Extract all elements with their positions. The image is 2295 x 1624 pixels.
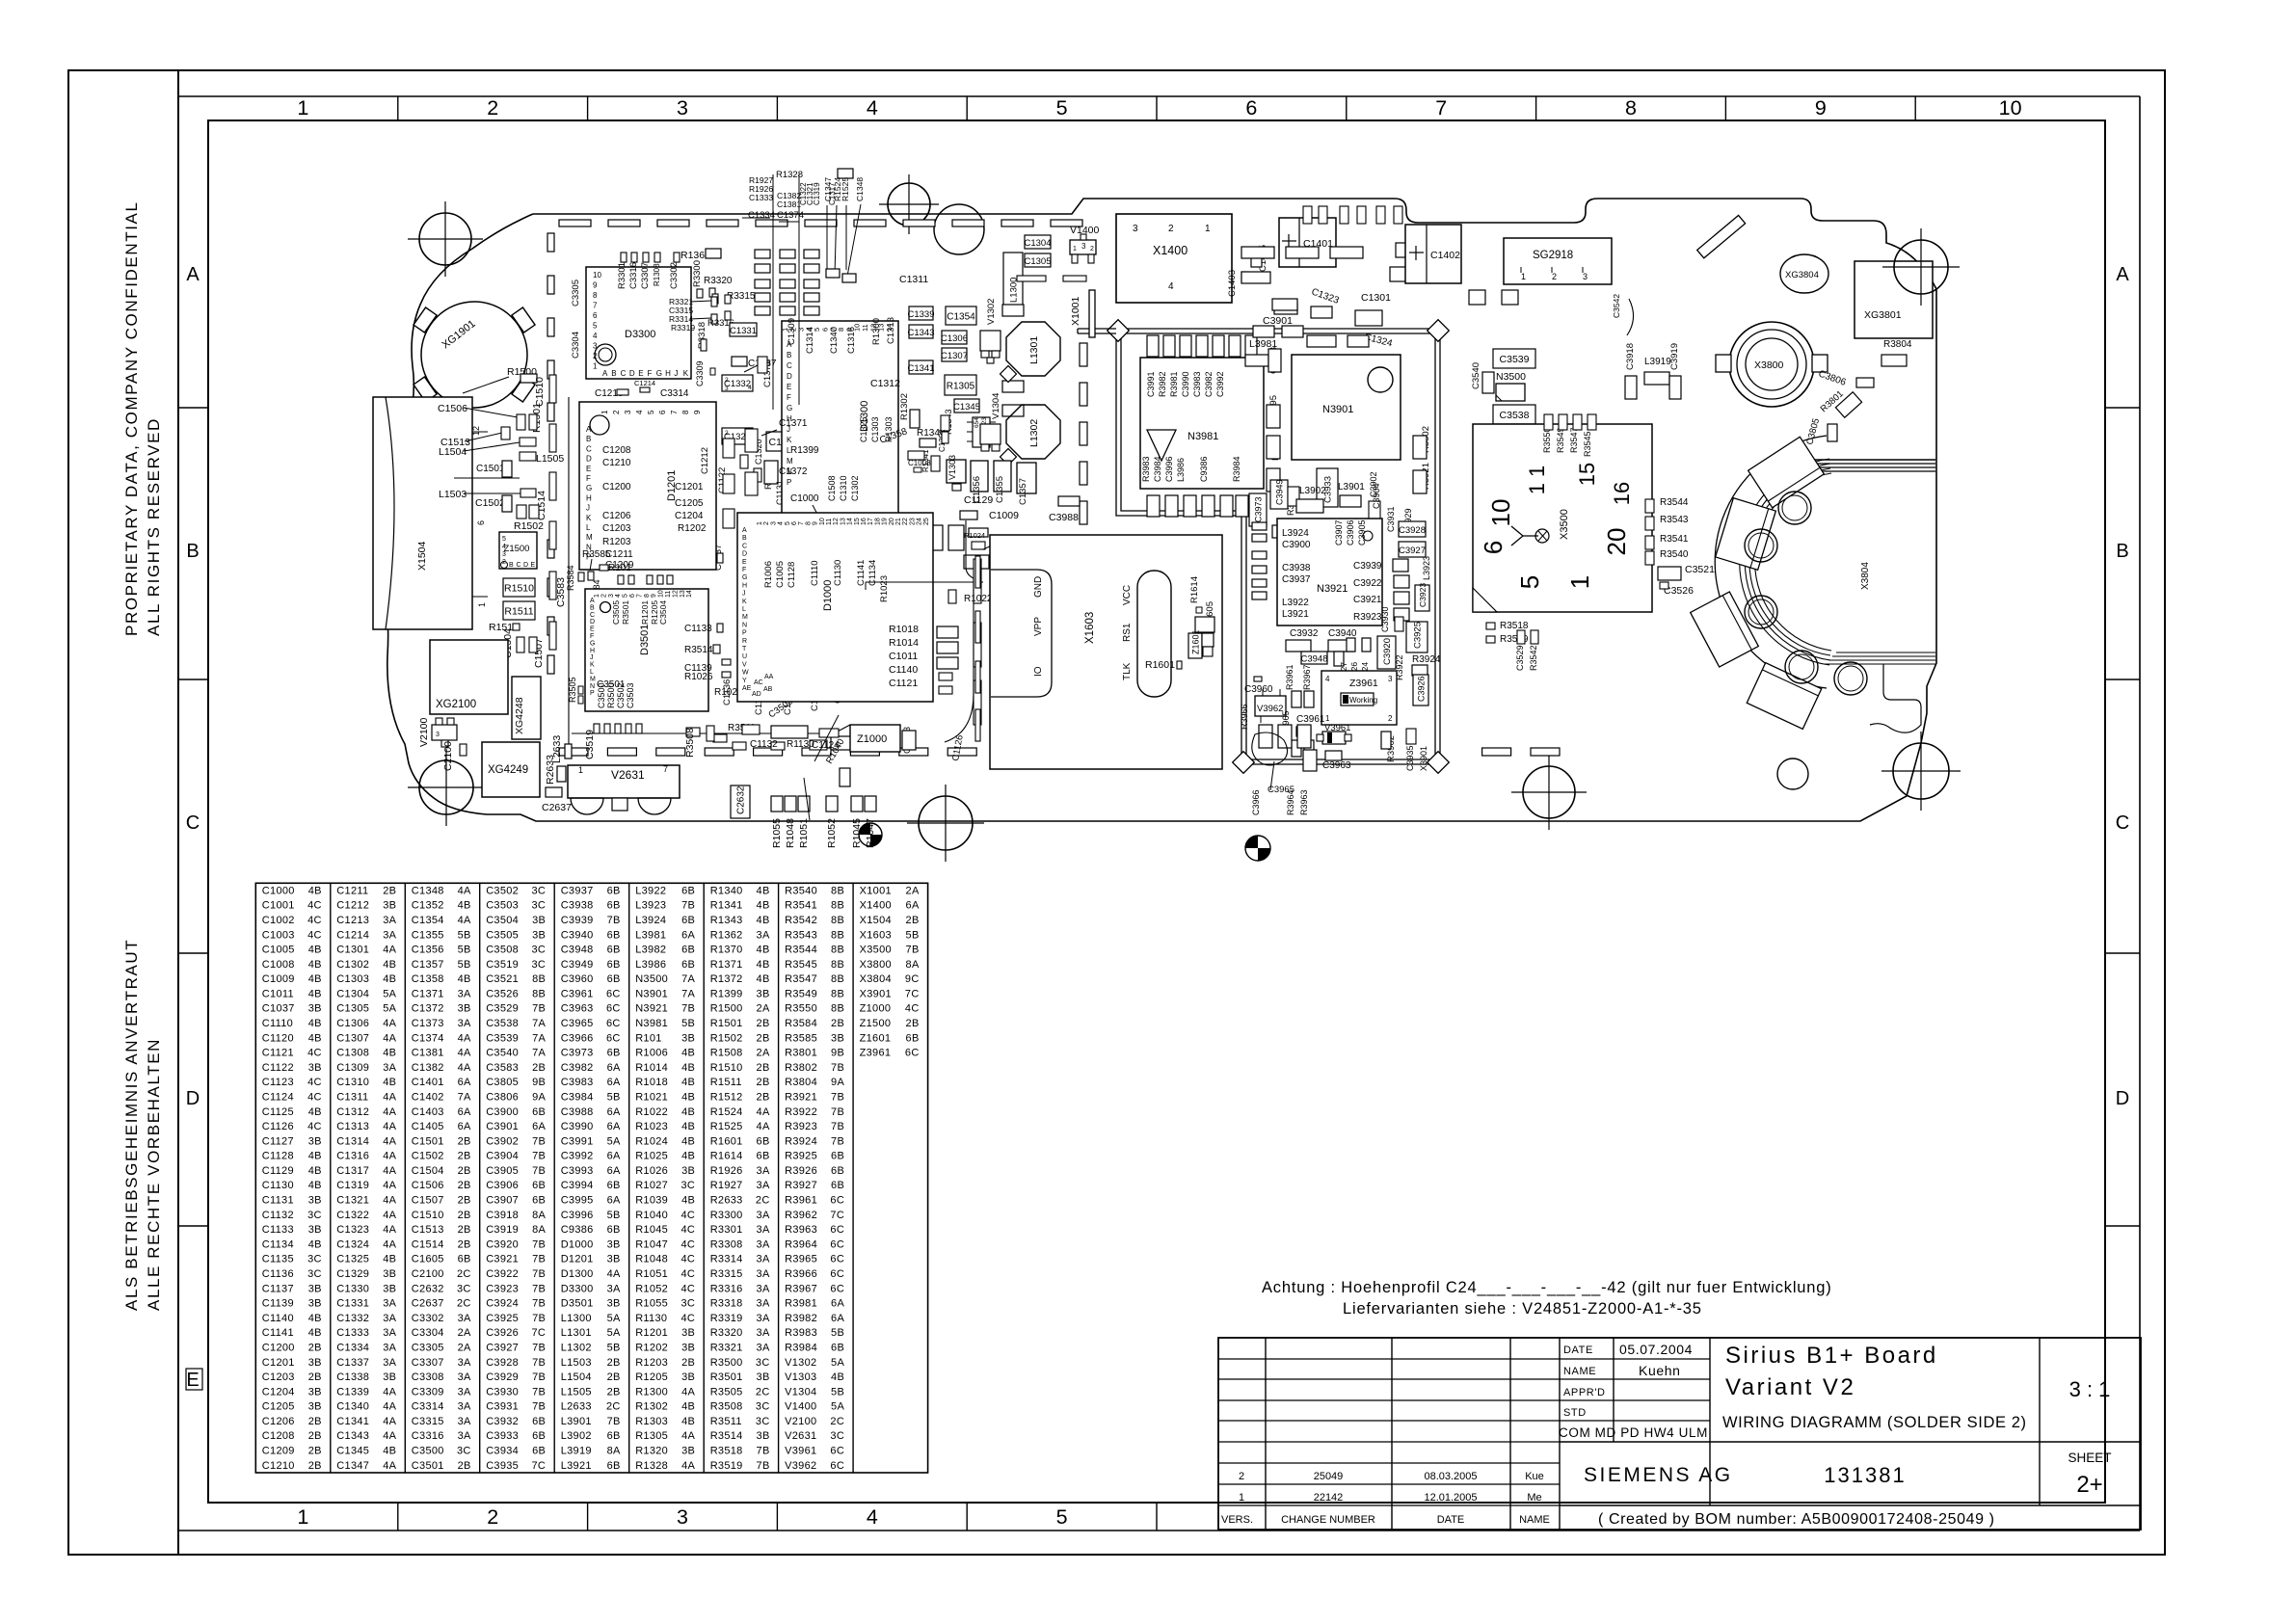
svg-text:L3901: L3901 [561, 1416, 592, 1427]
svg-text:C1371: C1371 [779, 418, 808, 429]
screw hole bottom-middle [1245, 836, 1270, 861]
svg-text:L3986: L3986 [635, 959, 666, 971]
svg-text:6A: 6A [607, 1195, 621, 1207]
svg-text:C3939: C3939 [1353, 561, 1382, 572]
svg-text:C1307: C1307 [336, 1032, 369, 1044]
capacitor C1329 [722, 428, 753, 444]
svg-text:C1302: C1302 [850, 475, 860, 501]
svg-text:C1125: C1125 [262, 1106, 294, 1118]
svg-text:4A: 4A [383, 1106, 396, 1118]
svg-text:C3973: C3973 [1254, 496, 1264, 522]
IC Z3961 [1321, 671, 1397, 725]
svg-text:3A: 3A [757, 1210, 770, 1221]
svg-text:3B: 3B [757, 1430, 770, 1442]
svg-text:8: 8 [681, 410, 690, 414]
svg-text:R3518: R3518 [710, 1446, 743, 1457]
svg-text:4C: 4C [905, 1003, 920, 1015]
svg-text:C1324: C1324 [336, 1238, 369, 1250]
svg-text:C3926: C3926 [486, 1327, 519, 1339]
svg-text:4C: 4C [681, 1268, 696, 1280]
svg-text:C3904: C3904 [486, 1151, 519, 1162]
svg-text:7B: 7B [831, 1135, 844, 1147]
svg-text:C3307: C3307 [412, 1357, 444, 1369]
svg-text:C1005: C1005 [262, 945, 295, 956]
svg-text:1: 1 [757, 521, 763, 525]
svg-text:C1337: C1337 [336, 1357, 369, 1369]
svg-text:C3920: C3920 [1382, 638, 1393, 665]
svg-text:6A: 6A [607, 1121, 621, 1132]
svg-text:R101: R101 [608, 563, 631, 573]
svg-text:3B: 3B [681, 1446, 695, 1457]
svg-text:R2633: R2633 [710, 1195, 743, 1207]
svg-text:X1001: X1001 [1070, 296, 1081, 326]
svg-text:C1129: C1129 [262, 1165, 294, 1177]
resistor R1305 [945, 375, 976, 395]
svg-text:L: L [586, 523, 591, 532]
svg-text:C1201: C1201 [675, 482, 704, 493]
svg-text:R1341: R1341 [710, 900, 743, 912]
svg-text:W: W [742, 670, 749, 677]
svg-text:Y: Y [742, 678, 747, 684]
svg-text:N3901: N3901 [635, 988, 668, 999]
svg-text:8B: 8B [831, 885, 844, 896]
svg-text:C3900: C3900 [486, 1106, 519, 1118]
svg-text:B: B [590, 604, 595, 611]
svg-text:C3924: C3924 [486, 1298, 519, 1310]
svg-text:R3314: R3314 [710, 1254, 743, 1265]
svg-text:C1121: C1121 [889, 678, 918, 689]
frame margin divider [177, 70, 179, 1555]
svg-text:C1303: C1303 [336, 973, 369, 985]
svg-text:3B: 3B [383, 1268, 396, 1280]
svg-text:D3501: D3501 [561, 1298, 594, 1310]
resistor R1510 [503, 578, 535, 597]
svg-text:6B: 6B [532, 1416, 546, 1427]
transistor V3962 [1255, 696, 1286, 716]
svg-text:C1508: C1508 [827, 475, 837, 501]
svg-text:C3540: C3540 [486, 1048, 519, 1059]
svg-text:J: J [674, 369, 678, 378]
svg-text:C3923: C3923 [1418, 583, 1428, 607]
svg-text:C1347: C1347 [823, 177, 833, 201]
svg-text:C3984: C3984 [561, 1092, 594, 1104]
svg-text:C1122: C1122 [262, 1062, 294, 1074]
svg-text:5: 5 [593, 322, 598, 331]
title block border [1218, 1338, 2141, 1530]
svg-text:3A: 3A [458, 1430, 471, 1442]
svg-text:131381: 131381 [1824, 1463, 1906, 1487]
svg-text:V1304: V1304 [785, 1386, 816, 1398]
svg-text:3A: 3A [383, 1298, 396, 1310]
svg-text:C3933: C3933 [486, 1430, 519, 1442]
svg-text:C3992: C3992 [1215, 371, 1225, 397]
svg-text:4A: 4A [383, 1430, 396, 1442]
svg-text:3: 3 [1133, 224, 1138, 234]
svg-text:K: K [683, 369, 689, 378]
svg-text:AE: AE [742, 685, 752, 692]
svg-text:C3996: C3996 [1164, 456, 1174, 482]
svg-text:7B: 7B [906, 945, 920, 956]
svg-text:C1374: C1374 [412, 1032, 444, 1044]
IC D3300 [586, 267, 691, 379]
svg-text:4B: 4B [308, 1106, 322, 1118]
svg-text:NAME: NAME [1519, 1514, 1550, 1526]
svg-text:C1128: C1128 [787, 562, 797, 588]
capacitor C1338 [766, 432, 801, 451]
svg-text:R3550: R3550 [785, 1003, 817, 1015]
svg-text:C1126: C1126 [262, 1121, 294, 1132]
svg-text:Z3961: Z3961 [1349, 678, 1378, 689]
capacitor C1306 [942, 331, 967, 344]
svg-text:C1008: C1008 [262, 959, 295, 971]
svg-text:7A: 7A [532, 1018, 546, 1029]
svg-text:7B: 7B [532, 1238, 546, 1250]
middle field vertical pairs [1303, 206, 1312, 224]
svg-text:6A: 6A [906, 900, 920, 912]
svg-text:C3963: C3963 [1322, 760, 1351, 771]
svg-text:C1140: C1140 [889, 664, 918, 676]
svg-text:C3931: C3931 [1386, 506, 1396, 532]
svg-text:6A: 6A [607, 1077, 621, 1088]
svg-text:3B: 3B [308, 1401, 322, 1413]
svg-text:R3927: R3927 [785, 1180, 817, 1191]
svg-text:B: B [186, 541, 199, 562]
svg-text:4B: 4B [383, 1446, 396, 1457]
svg-text:C2100: C2100 [412, 1268, 444, 1280]
capacitor C3948 [1301, 652, 1327, 664]
svg-text:C1405: C1405 [412, 1121, 444, 1132]
svg-text:4B: 4B [757, 973, 770, 985]
capacitor C1345 [954, 399, 979, 413]
svg-text:Working: Working [1349, 696, 1377, 705]
svg-text:R1130: R1130 [635, 1313, 667, 1324]
svg-text:R1340: R1340 [710, 885, 743, 896]
capacitor C1305 [1025, 253, 1051, 267]
svg-text:Kuehn: Kuehn [1639, 1363, 1680, 1378]
svg-text:C1312: C1312 [336, 1106, 369, 1118]
svg-text:4: 4 [867, 96, 878, 120]
svg-text:V1303: V1303 [785, 1371, 816, 1383]
svg-text:4B: 4B [681, 1062, 695, 1074]
svg-text:L1302: L1302 [1028, 419, 1040, 447]
svg-text:5: 5 [785, 521, 791, 525]
rect row below D3501 [594, 724, 600, 733]
svg-text:3B: 3B [308, 1062, 322, 1074]
svg-text:2B: 2B [383, 885, 396, 896]
svg-text:1: 1 [1205, 224, 1211, 234]
capacitor C1332 [722, 375, 753, 391]
svg-text:C3583: C3583 [486, 1062, 519, 1074]
svg-text:6A: 6A [458, 1077, 471, 1088]
svg-text:4B: 4B [681, 1416, 695, 1427]
svg-text:2C: 2C [756, 1386, 770, 1398]
middle component field rows [1241, 247, 1274, 258]
svg-text:C2637: C2637 [412, 1298, 444, 1310]
svg-text:C3930: C3930 [1380, 606, 1390, 632]
svg-text:C1356: C1356 [972, 476, 982, 503]
svg-text:C3806: C3806 [486, 1092, 519, 1104]
svg-text:3 : 1: 3 : 1 [2069, 1377, 2111, 1401]
svg-text:C3314: C3314 [660, 388, 689, 399]
svg-text:6B: 6B [607, 929, 621, 941]
left rows x1010-1045 [1002, 305, 1024, 316]
svg-text:X3901: X3901 [860, 988, 892, 999]
svg-text:3B: 3B [681, 1343, 695, 1354]
svg-text:C1206: C1206 [262, 1416, 295, 1427]
svg-text:R3549: R3549 [785, 988, 817, 999]
svg-text:7B: 7B [532, 1165, 546, 1177]
svg-text:5: 5 [1515, 575, 1544, 589]
svg-text:2: 2 [725, 430, 729, 437]
svg-text:4B: 4B [458, 973, 471, 985]
svg-text:C3929: C3929 [486, 1371, 519, 1383]
svg-text:6: 6 [658, 410, 667, 414]
svg-text:R3501: R3501 [621, 600, 630, 625]
svg-text:C3500: C3500 [597, 682, 606, 708]
svg-text:R1302: R1302 [899, 393, 910, 420]
svg-text:X1400: X1400 [860, 900, 892, 912]
svg-text:Me: Me [1527, 1492, 1541, 1504]
svg-text:X3500: X3500 [860, 945, 892, 956]
svg-text:3C: 3C [681, 1298, 696, 1310]
svg-text:R3505: R3505 [710, 1386, 743, 1398]
svg-text:6B: 6B [607, 1048, 621, 1059]
svg-text:XG3804: XG3804 [1785, 270, 1819, 280]
svg-text:4: 4 [502, 544, 506, 550]
svg-text:DATE: DATE [1437, 1514, 1465, 1526]
svg-text:6B: 6B [831, 1343, 844, 1354]
svg-text:C3966: C3966 [1251, 789, 1261, 815]
svg-text:C1311: C1311 [336, 1092, 368, 1104]
svg-text:R1305: R1305 [635, 1430, 668, 1442]
svg-text:C3521: C3521 [486, 973, 519, 985]
svg-text:3C: 3C [756, 1401, 770, 1413]
svg-text:F: F [586, 474, 591, 483]
capacitor C1354 [946, 306, 976, 325]
svg-text:5B: 5B [458, 929, 471, 941]
svg-text:6B: 6B [831, 1165, 844, 1177]
svg-text:3A: 3A [383, 1357, 396, 1369]
svg-text:4B: 4B [757, 900, 770, 912]
svg-text:9: 9 [693, 410, 702, 414]
svg-text:2B: 2B [458, 1135, 471, 1147]
svg-text:N: N [742, 622, 747, 628]
svg-text:6C: 6C [830, 1446, 844, 1457]
svg-text:1: 1 [1239, 1492, 1244, 1504]
svg-text:21: 21 [895, 518, 902, 525]
svg-text:6A: 6A [607, 1151, 621, 1162]
svg-text:3A: 3A [757, 1224, 770, 1236]
svg-text:6C: 6C [830, 1224, 844, 1236]
svg-text:5B: 5B [906, 929, 920, 941]
wire columns from top labels [772, 174, 774, 410]
svg-text:4A: 4A [757, 1106, 770, 1118]
svg-text:4B: 4B [681, 1106, 695, 1118]
svg-text:6B: 6B [607, 885, 621, 896]
svg-text:C3988: C3988 [1049, 512, 1079, 523]
svg-text:2: 2 [725, 377, 729, 384]
svg-text:7C: 7C [532, 1460, 547, 1472]
svg-text:6B: 6B [681, 945, 695, 956]
svg-text:20: 20 [889, 518, 895, 525]
capacitor C2632 [731, 785, 750, 818]
svg-text:C3921: C3921 [1353, 595, 1382, 605]
svg-text:C3925: C3925 [486, 1313, 519, 1324]
svg-text:7: 7 [593, 302, 598, 310]
svg-text:25049: 25049 [1314, 1471, 1344, 1482]
svg-text:2C: 2C [457, 1298, 471, 1310]
left vertical dash column [547, 233, 554, 252]
svg-text:R3308: R3308 [710, 1238, 743, 1250]
svg-text:R3981: R3981 [785, 1298, 817, 1310]
svg-text:4B: 4B [308, 1151, 322, 1162]
svg-text:R1300: R1300 [635, 1386, 668, 1398]
capacitors C1356 C1355 C1357 [971, 461, 988, 492]
svg-text:6B: 6B [831, 1180, 844, 1191]
svg-text:C1354: C1354 [947, 311, 975, 322]
svg-text:C1130: C1130 [262, 1180, 294, 1191]
svg-text:3A: 3A [757, 1343, 770, 1354]
svg-text:8: 8 [644, 594, 651, 598]
svg-text:2A: 2A [906, 885, 920, 896]
svg-text:C1506: C1506 [412, 1180, 444, 1191]
svg-text:2B: 2B [308, 1446, 322, 1457]
svg-text:C1309: C1309 [336, 1062, 369, 1074]
svg-text:C3304: C3304 [412, 1327, 444, 1339]
svg-text:7: 7 [670, 410, 679, 414]
svg-text:1: 1 [1565, 575, 1594, 589]
svg-text:L3921: L3921 [1282, 609, 1309, 620]
svg-text:6B: 6B [532, 1195, 546, 1207]
svg-text:J: J [742, 591, 746, 598]
svg-text:C1204: C1204 [675, 511, 704, 521]
svg-text:V3961: V3961 [785, 1446, 816, 1457]
svg-text:C1304: C1304 [336, 988, 369, 999]
svg-text:C1381: C1381 [777, 200, 801, 209]
connector XG3801 [1855, 261, 1933, 338]
svg-text:R3967: R3967 [1302, 664, 1312, 690]
svg-text:4A: 4A [383, 1238, 396, 1250]
svg-text:2B: 2B [308, 1371, 322, 1383]
svg-text:N3500: N3500 [1496, 371, 1526, 383]
svg-text:8B: 8B [831, 973, 844, 985]
svg-text:C3993: C3993 [561, 1165, 594, 1177]
svg-text:E: E [742, 559, 747, 566]
svg-text:L3901: L3901 [1338, 482, 1365, 493]
svg-text:7: 7 [663, 764, 668, 774]
svg-text:3A: 3A [458, 988, 471, 999]
svg-text:V2100: V2100 [418, 717, 430, 747]
svg-text:C1338: C1338 [336, 1371, 369, 1383]
svg-text:C3526: C3526 [486, 988, 519, 999]
svg-text:C3907: C3907 [486, 1195, 519, 1207]
capacitor C3920 [1377, 636, 1396, 669]
svg-text:4: 4 [778, 521, 785, 525]
svg-text:R: R [742, 638, 747, 645]
svg-text:C1355: C1355 [412, 929, 444, 941]
svg-text:R3542: R3542 [785, 915, 817, 926]
svg-text:C3902: C3902 [486, 1135, 519, 1147]
svg-text:C3922: C3922 [1353, 578, 1382, 589]
svg-text:C1402: C1402 [412, 1092, 444, 1104]
capacitor C1341 [909, 360, 933, 374]
svg-text:R3511: R3511 [710, 1416, 742, 1427]
svg-text:C1356: C1356 [412, 945, 444, 956]
svg-text:R3540: R3540 [785, 885, 817, 896]
svg-text:R3966: R3966 [785, 1268, 817, 1280]
svg-text:4A: 4A [383, 1460, 396, 1472]
svg-text:R1039: R1039 [635, 1195, 668, 1207]
svg-text:C1304: C1304 [1025, 238, 1052, 249]
svg-text:2: 2 [612, 410, 621, 414]
svg-text:7B: 7B [831, 1092, 844, 1104]
svg-text:R1500: R1500 [710, 1003, 743, 1015]
svg-text:C3963: C3963 [561, 1003, 594, 1015]
svg-text:R1203: R1203 [602, 537, 631, 547]
svg-text:E: E [590, 626, 595, 633]
svg-text:C: C [621, 369, 627, 378]
svg-text:A: A [586, 425, 592, 434]
svg-text:C3961: C3961 [561, 988, 594, 999]
svg-text:3A: 3A [383, 915, 396, 926]
svg-text:C1357: C1357 [1018, 478, 1028, 505]
svg-text:C1130: C1130 [833, 560, 843, 586]
svg-text:L1504: L1504 [561, 1371, 592, 1383]
svg-text:R3924: R3924 [785, 1135, 817, 1147]
svg-text:2B: 2B [458, 1165, 471, 1177]
svg-text:E: E [186, 1370, 199, 1391]
svg-text:E: E [787, 383, 791, 391]
svg-text:4B: 4B [308, 945, 322, 956]
svg-text:SG2918: SG2918 [1533, 250, 1573, 261]
svg-text:5A: 5A [831, 1401, 844, 1413]
svg-text:C9386: C9386 [1199, 456, 1209, 482]
svg-text:3B: 3B [607, 1254, 621, 1265]
svg-text:L3919: L3919 [561, 1446, 592, 1457]
svg-text:U: U [742, 653, 747, 660]
svg-text:2B: 2B [458, 1460, 471, 1472]
svg-text:R3318: R3318 [710, 1298, 743, 1310]
svg-text:7C: 7C [905, 988, 920, 999]
svg-text:C1334: C1334 [336, 1343, 369, 1354]
svg-text:F: F [648, 369, 653, 378]
svg-text:C2632: C2632 [736, 785, 747, 814]
svg-text:2B: 2B [458, 1195, 471, 1207]
svg-text:6: 6 [476, 520, 486, 525]
svg-text:C1316: C1316 [336, 1151, 369, 1162]
svg-text:TLK: TLK [1122, 662, 1133, 680]
svg-text:N3921: N3921 [1317, 583, 1348, 595]
svg-text:3B: 3B [681, 1327, 695, 1339]
svg-text:R1014: R1014 [635, 1062, 668, 1074]
svg-text:11: 11 [826, 519, 833, 525]
svg-text:X3804: X3804 [860, 973, 892, 985]
svg-text:4A: 4A [383, 1401, 396, 1413]
svg-text:C1513: C1513 [412, 1224, 444, 1236]
fiducial bottom-middle-right [1523, 766, 1575, 818]
svg-text:R3804: R3804 [1883, 339, 1912, 350]
svg-text:C3988: C3988 [561, 1106, 594, 1118]
svg-text:R1047: R1047 [635, 1238, 668, 1250]
svg-text:3B: 3B [383, 1371, 396, 1383]
svg-text:R3966: R3966 [1240, 704, 1249, 730]
battery clip XG1901 [421, 302, 527, 408]
svg-text:C: C [517, 562, 521, 569]
svg-text:L1300: L1300 [561, 1313, 592, 1324]
svg-text:C3538: C3538 [1500, 410, 1530, 421]
svg-text:R1362: R1362 [710, 929, 743, 941]
svg-text:X1603: X1603 [1084, 612, 1096, 644]
